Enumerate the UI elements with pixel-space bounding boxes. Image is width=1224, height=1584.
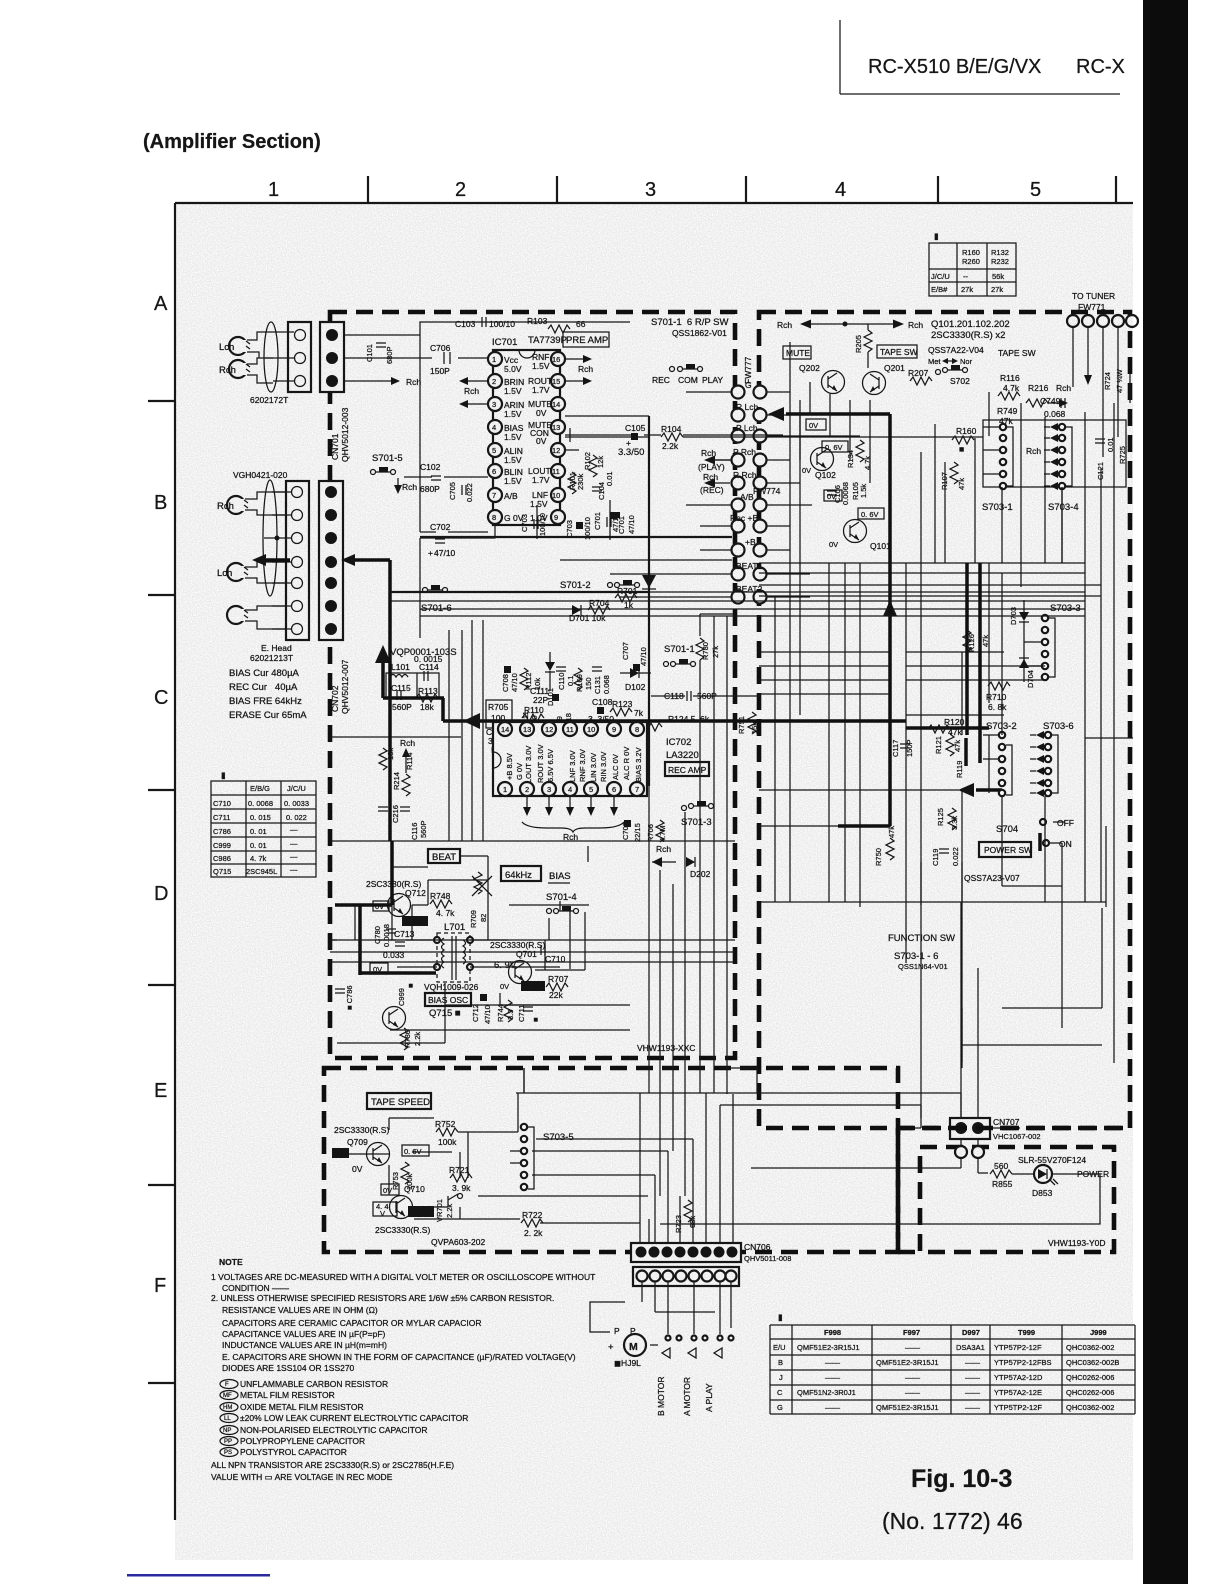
- wires ellipse to connector A: [265, 332, 294, 381]
- label QSS7A23-V07: [964, 873, 1020, 883]
- capacitor C113 3.3/50: [486, 727, 506, 755]
- header rule: [840, 20, 1120, 94]
- capacitor C103 100/10: [455, 317, 515, 329]
- label VHW1193-XXC: [637, 1043, 695, 1053]
- switch S703-6: [1030, 721, 1074, 797]
- resistor R705 100 box: [486, 700, 512, 728]
- label Q715: [429, 1008, 461, 1019]
- label 2SC3330(R.S) Q701: [490, 940, 545, 959]
- thick arrow into CN702 pin4: [341, 554, 375, 566]
- heavy trunk beat area: [335, 841, 436, 975]
- diode D101: [545, 652, 555, 706]
- svg-text:F: F: [154, 1275, 166, 1297]
- bus lines right mid y563-616: [759, 563, 1101, 596]
- label Q101.201.102.202 2SC3330(R.S) x2: [931, 319, 1010, 341]
- resistor R119 vertical: [955, 738, 966, 778]
- transistor Q709: [352, 1143, 390, 1175]
- label CN702 QHV5012-007: [330, 659, 350, 714]
- svg-text:1: 1: [268, 179, 279, 201]
- heavy verticals R119 area: [967, 563, 980, 763]
- capacitor C786: [335, 985, 354, 1010]
- connector CN706 plug: [633, 1267, 739, 1286]
- mini table R160/R132: [929, 231, 1016, 296]
- heavy R Lch feed: [768, 407, 890, 614]
- switch S703-1 contacts: [983, 424, 1013, 489]
- resistor R205 vertical: [854, 324, 872, 368]
- boxed label BIAS OSC: [425, 993, 471, 1006]
- svg-text:5: 5: [1030, 179, 1041, 201]
- labels motor vertical: [656, 1376, 714, 1416]
- row letters: [154, 293, 168, 1297]
- transistor Q202: [799, 363, 845, 394]
- extra right box verticals: [759, 373, 1130, 1063]
- resistor R103 66: [527, 316, 586, 333]
- trunk vertical x649: [565, 416, 649, 786]
- capacitor C707 47/10: [621, 642, 648, 671]
- wires power box: [660, 1139, 1100, 1224]
- svg-text:A: A: [154, 293, 168, 315]
- label Lch B: [217, 568, 232, 579]
- resistor R707 22k: [546, 974, 569, 1000]
- IC702 pin labels: [505, 744, 643, 783]
- resistor R786 2.2k vertical: [400, 1028, 422, 1050]
- resistor R748 4.7k: [430, 891, 455, 918]
- svg-text:2: 2: [455, 179, 466, 201]
- heavy trunk x390: [375, 560, 390, 841]
- resistor R724 47 1/4W vertical: [1103, 368, 1124, 393]
- resistor R101 230k vertical: [568, 472, 585, 494]
- resistor R124 5.6k: [640, 714, 710, 731]
- label VHW1193-Y0D: [1048, 1238, 1105, 1248]
- capacitor C702 47/10: [420, 522, 488, 558]
- label CN707 VHC1067-002: [993, 1117, 1041, 1141]
- resistor R750 47k vertical: [874, 826, 896, 866]
- connector 6202172T body: [288, 322, 311, 392]
- resistor R126 47k vertical: [963, 630, 990, 652]
- resistor R111 680 vertical: [521, 711, 539, 728]
- wires tape speed: [349, 1068, 757, 1223]
- switch S703-3: [1024, 603, 1081, 680]
- LED D853 POWER: [1032, 1165, 1109, 1198]
- wires right lower: [921, 738, 1133, 1128]
- boxed label REC AMP: [665, 762, 709, 776]
- capacitor C121 0.01 vertical: [1095, 437, 1115, 480]
- extended y1093/1105 wires: [757, 1093, 961, 1118]
- diode D202 Rch arrow: [652, 844, 711, 879]
- svg-text:RC-X510 B/E/G/VX: RC-X510 B/E/G/VX: [868, 56, 1041, 78]
- connector E.Head body: [286, 481, 309, 640]
- switch S701-1 mid: [664, 644, 696, 667]
- resistor R116 4.7k: [998, 373, 1020, 400]
- switch S701-2: [560, 580, 640, 591]
- blue pen line bottom left: [127, 1574, 270, 1577]
- label 6202172T: [250, 395, 288, 405]
- label S704: [996, 824, 1018, 835]
- label FUNCTION SW S703-1-6: [888, 933, 955, 971]
- head erase B: [227, 606, 248, 624]
- boxed 0.6V Q102: [822, 441, 848, 452]
- capacitor C117 150P: [891, 739, 914, 757]
- label FW774: [753, 486, 781, 496]
- bottom table: [770, 1312, 1135, 1414]
- transistor Q715: [383, 1007, 406, 1030]
- boxed label PRE AMP: [563, 332, 609, 347]
- label E.Head 62021213T: [250, 643, 293, 663]
- capacitor C110 0.1: [556, 667, 575, 690]
- thick arrow erase feed: [252, 554, 290, 566]
- IC701 left arrows: [459, 377, 488, 408]
- heavy up arrow CN702 trunk: [375, 645, 391, 698]
- label QVPA603-202: [431, 1237, 485, 1247]
- resistor R207: [908, 368, 932, 385]
- capacitor C101 680P: [365, 343, 394, 364]
- wires S701 bank stubs: [610, 392, 860, 597]
- svg-text:C: C: [154, 687, 168, 709]
- wire head steps B: [245, 492, 286, 629]
- capacitor C116 560P vertical: [378, 807, 428, 840]
- switch bank S701 contacts: [732, 386, 767, 604]
- label IC702 LA3220: [666, 737, 699, 761]
- resistor R752 100k: [435, 1119, 458, 1147]
- note symbol ovals: [220, 1380, 238, 1457]
- heavy arrow left y790: [958, 783, 1002, 797]
- arrow Rch Rec row: [700, 472, 730, 495]
- IC702 bottom arrows: [523, 796, 618, 816]
- boxed 0.6V Q101: [858, 508, 884, 519]
- boxed 0.6V Q709: [402, 1145, 429, 1156]
- connector TO TUNER circles: [1067, 315, 1138, 327]
- IC702 pins bottom: [498, 782, 644, 796]
- dashed board box R (switch board): [759, 312, 1130, 1128]
- resistor R855 560: [990, 1161, 1013, 1189]
- resistor R744 3.3 vertical: [496, 1000, 515, 1022]
- resistor R114 10k vertical: [379, 748, 414, 770]
- arrows Rch top: [777, 320, 923, 331]
- motor M: [590, 1282, 731, 1368]
- resistor R109 150 vertical: [574, 668, 593, 692]
- black scan bar right edge: [1143, 0, 1188, 1584]
- resistor R102 12k vertical: [583, 452, 605, 477]
- capacitor C109 100/18: [555, 713, 573, 736]
- boxed label 64kHz: [501, 866, 541, 881]
- switch S701-3: [681, 801, 714, 828]
- resistor R725 vertical: [1118, 446, 1127, 464]
- resistor R134 4.7k vertical: [846, 440, 872, 470]
- resistor R701 1k: [615, 586, 638, 610]
- capacitor C131 0.068: [592, 667, 611, 694]
- capacitor C112 3.3 vertical: [504, 728, 522, 747]
- label S701-1 6 R/P SW: [651, 317, 728, 338]
- potentiometer VR701 2.2k vertical: [435, 1194, 463, 1223]
- capacitor C703 100/10: [520, 505, 547, 539]
- clip contacts motor: [662, 1336, 734, 1359]
- resistor R104 2.2k: [661, 424, 683, 451]
- label QSS7A22-V04: [928, 345, 984, 355]
- cable ellipse A: [264, 322, 278, 392]
- buses y560-616: [390, 560, 732, 616]
- dashed link lower-right: [898, 1128, 1130, 1252]
- heavy bus y537: [420, 536, 732, 538]
- resistor R751 15k vertical: [737, 712, 759, 734]
- vertical wires right box: [790, 392, 1101, 963]
- capacitor C119 0.022 vertical: [931, 847, 960, 866]
- resistor R123: [610, 699, 644, 718]
- switch S701-4: [547, 906, 579, 914]
- switch S702: [936, 365, 971, 386]
- resistor R706 4.7M vertical: [646, 820, 667, 842]
- notes heading: [219, 1257, 243, 1267]
- wire C103 top bus: [344, 322, 630, 532]
- capacitor C711 vertical: [517, 1005, 540, 1022]
- svg-text:4: 4: [835, 179, 846, 201]
- switch S703-2: [983, 721, 1017, 796]
- heavy bus y721 right: [735, 719, 906, 723]
- resistor R704 10k + diode D701: [569, 598, 610, 623]
- boxed 0V Q102: [806, 419, 826, 430]
- column ticks: [368, 176, 1116, 203]
- head Lch B: [227, 563, 248, 581]
- transistor Q712: [388, 894, 411, 917]
- connector CN701 body: [320, 322, 344, 392]
- brace Rch under IC702: [522, 822, 624, 842]
- horizontals right box mid: [759, 652, 1045, 715]
- head Rch (playback head A): [229, 360, 250, 378]
- boxed 2.3V: [408, 1206, 434, 1217]
- inductor L101 C115 box: [386, 654, 443, 712]
- connector CN707: [950, 1118, 990, 1139]
- capacitor C104 0.01 vertical: [592, 471, 614, 500]
- switch REC COM PLAY: [652, 364, 723, 385]
- heavy bus y592 segment: [390, 591, 649, 593]
- horizontals lower box L: [330, 905, 735, 1030]
- head Rch B: [227, 496, 248, 514]
- boxed 0V Q712: [373, 901, 389, 911]
- page title (Amplifier Section): [143, 131, 321, 153]
- IC701 right arrows: [565, 355, 593, 450]
- resistor R753 100k vertical: [391, 1162, 414, 1190]
- boxed 0V Q709: [332, 1148, 349, 1158]
- wire head steps A: [247, 332, 273, 383]
- capacitor C713 0.033: [378, 929, 434, 960]
- label Lch: [219, 342, 234, 353]
- capacitor C999: [397, 983, 415, 1006]
- capacitor C111 22P: [530, 686, 559, 705]
- wires ellipse to connector B: [264, 492, 291, 629]
- IC701 pins right: [551, 352, 565, 524]
- resistor R780 27k vertical: [696, 614, 735, 720]
- label BIAS S701-4: [546, 871, 577, 903]
- IC701 body: [493, 350, 560, 525]
- boxed label TAPE SPEED: [367, 1093, 431, 1109]
- resistor R216: [1026, 383, 1071, 407]
- label TO TUNER FW771: [1072, 291, 1115, 312]
- wire Rch arrow from CN701 pin3: [344, 377, 421, 387]
- capacitor C705 0.022: [448, 482, 474, 502]
- capacitor C712 47/10: [471, 994, 492, 1024]
- capacitor C703b 100/10: [565, 517, 592, 540]
- wires bias right: [549, 901, 585, 970]
- transistor Q710: [381, 1184, 425, 1219]
- boxed label MUTE: [783, 346, 811, 359]
- wires from tuner connector: [1073, 327, 1118, 457]
- arrow Rch PLAY: [698, 448, 732, 472]
- boxed 4.4V: [373, 1202, 397, 1218]
- connector CN702 body: [319, 481, 343, 640]
- boxed 0.6V Q712: [402, 916, 428, 926]
- resistor R125 3.3k vertical: [936, 808, 959, 830]
- boxed 0V Q101: [824, 490, 842, 501]
- connector CN707 plug circles: [955, 1146, 984, 1158]
- heavy bus y728: [906, 726, 989, 730]
- label IC701 TA7739P: [492, 335, 567, 348]
- diode D102: [620, 668, 651, 692]
- column numbers: [268, 179, 1041, 201]
- label SLR-55V270F124: [1018, 1155, 1086, 1165]
- label CN706 QHV5011-008: [744, 1242, 791, 1263]
- svg-text:E: E: [154, 1080, 167, 1102]
- capacitor C102 680P: [404, 462, 488, 494]
- arrow Rch D202: [0, 0, 1, 1]
- left variant table: [211, 770, 316, 877]
- verticals right box mid2: [775, 563, 1002, 902]
- switch bank labels: [730, 380, 763, 594]
- label Met-Nor: [928, 357, 973, 366]
- label CN701 QHV5012-003: [330, 407, 350, 462]
- notes block 2 symbols: [211, 1379, 468, 1482]
- Fig. 10-3: [911, 1465, 1012, 1493]
- label FW777: [743, 356, 753, 384]
- diode D201 on trunk: [642, 575, 656, 589]
- header title RC-X510 B/E/G/VX: [868, 56, 1125, 78]
- svg-text:D: D: [154, 883, 168, 905]
- wires CN707 from above: [898, 902, 1020, 1128]
- resistor R723 68k vertical: [674, 1200, 697, 1233]
- svg-text:B: B: [154, 492, 167, 514]
- capacitor Q709 22/15 vertical: [621, 820, 642, 842]
- bus y902: [759, 901, 1106, 903]
- transformer L701: [434, 922, 473, 982]
- row ticks: [148, 401, 175, 1383]
- wires beat area: [392, 856, 589, 970]
- capacitor C108 3.3/50: [588, 697, 614, 724]
- dashed board box lower (tape speed QVPA603-202): [324, 1068, 898, 1252]
- resistor R112 10k vertical: [520, 668, 542, 690]
- wires lower area cross: [524, 1068, 757, 1243]
- label 2SC3330(R.S) Q712: [366, 879, 426, 898]
- transistor Q102: [802, 448, 836, 481]
- boxed 0V beat: [370, 963, 388, 974]
- transistor Q201: [863, 363, 906, 395]
- resistor R110: [522, 705, 544, 722]
- label VGH0421-020: [233, 470, 288, 480]
- wires to CN706: [532, 1093, 733, 1243]
- notes block 1: [211, 1272, 595, 1373]
- junction dot cable B: [275, 536, 280, 541]
- capacitor C701 47/10: [593, 500, 620, 540]
- switch S703-4 arrows: [1026, 423, 1072, 490]
- resistor R710 6.8k: [986, 682, 1010, 712]
- resistor R749 47k: [997, 406, 1018, 426]
- diode D704: [1019, 658, 1035, 688]
- capacitor C701 47/10 vertical: [610, 512, 636, 534]
- capacitor C216: [391, 805, 410, 823]
- label TAPE SW right: [998, 348, 1036, 358]
- IC701 pin labels left: [504, 355, 524, 523]
- resistor R214 vertical + Rch arrow: [392, 738, 415, 796]
- dashed board box power (VHW1193-Y0D): [920, 1147, 1114, 1252]
- note symbol letters: [223, 1382, 232, 1456]
- capacitor C780 0.0018: [373, 924, 396, 947]
- bus y437 full: [565, 436, 983, 438]
- label VQP0001-103S: [390, 647, 457, 658]
- wire pin8 bottom: [420, 524, 495, 592]
- connector CN706: [631, 1243, 741, 1262]
- resistor R722 2.2k: [521, 1210, 543, 1238]
- capacitor C106 0.0068 + resistor R105 1.5k: [827, 482, 868, 505]
- capacitor C105 3.3/50: [618, 423, 646, 458]
- cable ellipse B: [263, 480, 277, 596]
- (No. 1772) 46: [882, 1508, 1023, 1534]
- boxed label TAPE SW: [877, 345, 918, 358]
- vertical feeds right box top: [790, 342, 1114, 743]
- svg-text:(Amplifier Section): (Amplifier Section): [143, 131, 321, 153]
- IC702 pins top: [498, 722, 644, 736]
- svg-text:RC-X: RC-X: [1076, 56, 1125, 78]
- wire pin1 row: [344, 357, 491, 359]
- capacitor C118 560P: [651, 691, 760, 701]
- label S703-4: [1048, 502, 1079, 513]
- switch S701-5: [371, 453, 418, 494]
- capacitor C710b: [541, 945, 566, 964]
- label 2SC3330(R.S) Q709: [334, 1125, 389, 1147]
- wires function sw area: [719, 738, 1102, 1068]
- resistor R120 47k: [928, 717, 965, 737]
- capacitor C749 0.068: [1040, 396, 1066, 419]
- switch OFF/ON: [1040, 818, 1074, 851]
- capacitor C708 47/10: [501, 666, 519, 692]
- transistor Q701: [494, 960, 532, 991]
- transistor Q101: [829, 520, 891, 552]
- resistor R113 18k: [416, 686, 438, 712]
- vertical wires center column: [330, 592, 735, 841]
- boxed label BEAT: [428, 849, 460, 863]
- extended buses mid: [732, 592, 1085, 616]
- boxed 0.5V Q701: [521, 981, 545, 991]
- dashed board box L (preamp/rec board VHW1193-XXC): [330, 312, 735, 1058]
- label 2SC3330(R.S) b: [375, 1225, 430, 1235]
- grid frame top: [175, 203, 1133, 1520]
- bottom buses box L: [330, 846, 588, 1043]
- head Lch (playback head A): [229, 337, 250, 355]
- label Rch B: [217, 501, 234, 512]
- switch S701-6: [421, 585, 452, 614]
- resistor R160b: [952, 426, 977, 454]
- inner solid box S703-1/S703-4: [983, 420, 1126, 487]
- resistor R107 47k vertical: [940, 462, 966, 490]
- label S703-1: [982, 502, 1013, 513]
- bus line y435 speckled: [565, 428, 783, 442]
- resistor R121 47k vertical: [934, 734, 962, 756]
- heavy trunk x890 with up arrow: [838, 600, 897, 826]
- boxed label POWER SW: [979, 842, 1032, 857]
- heavy bus y698 and y721 with left arrow: [383, 698, 735, 729]
- vertical trunk extensions: [649, 616, 727, 1196]
- diode D703: [1009, 600, 1029, 661]
- bias text block: [229, 668, 307, 721]
- capacitor C706 150P: [430, 343, 451, 376]
- IC701 pins left: [488, 352, 502, 524]
- label VQH1009-026: [424, 982, 479, 992]
